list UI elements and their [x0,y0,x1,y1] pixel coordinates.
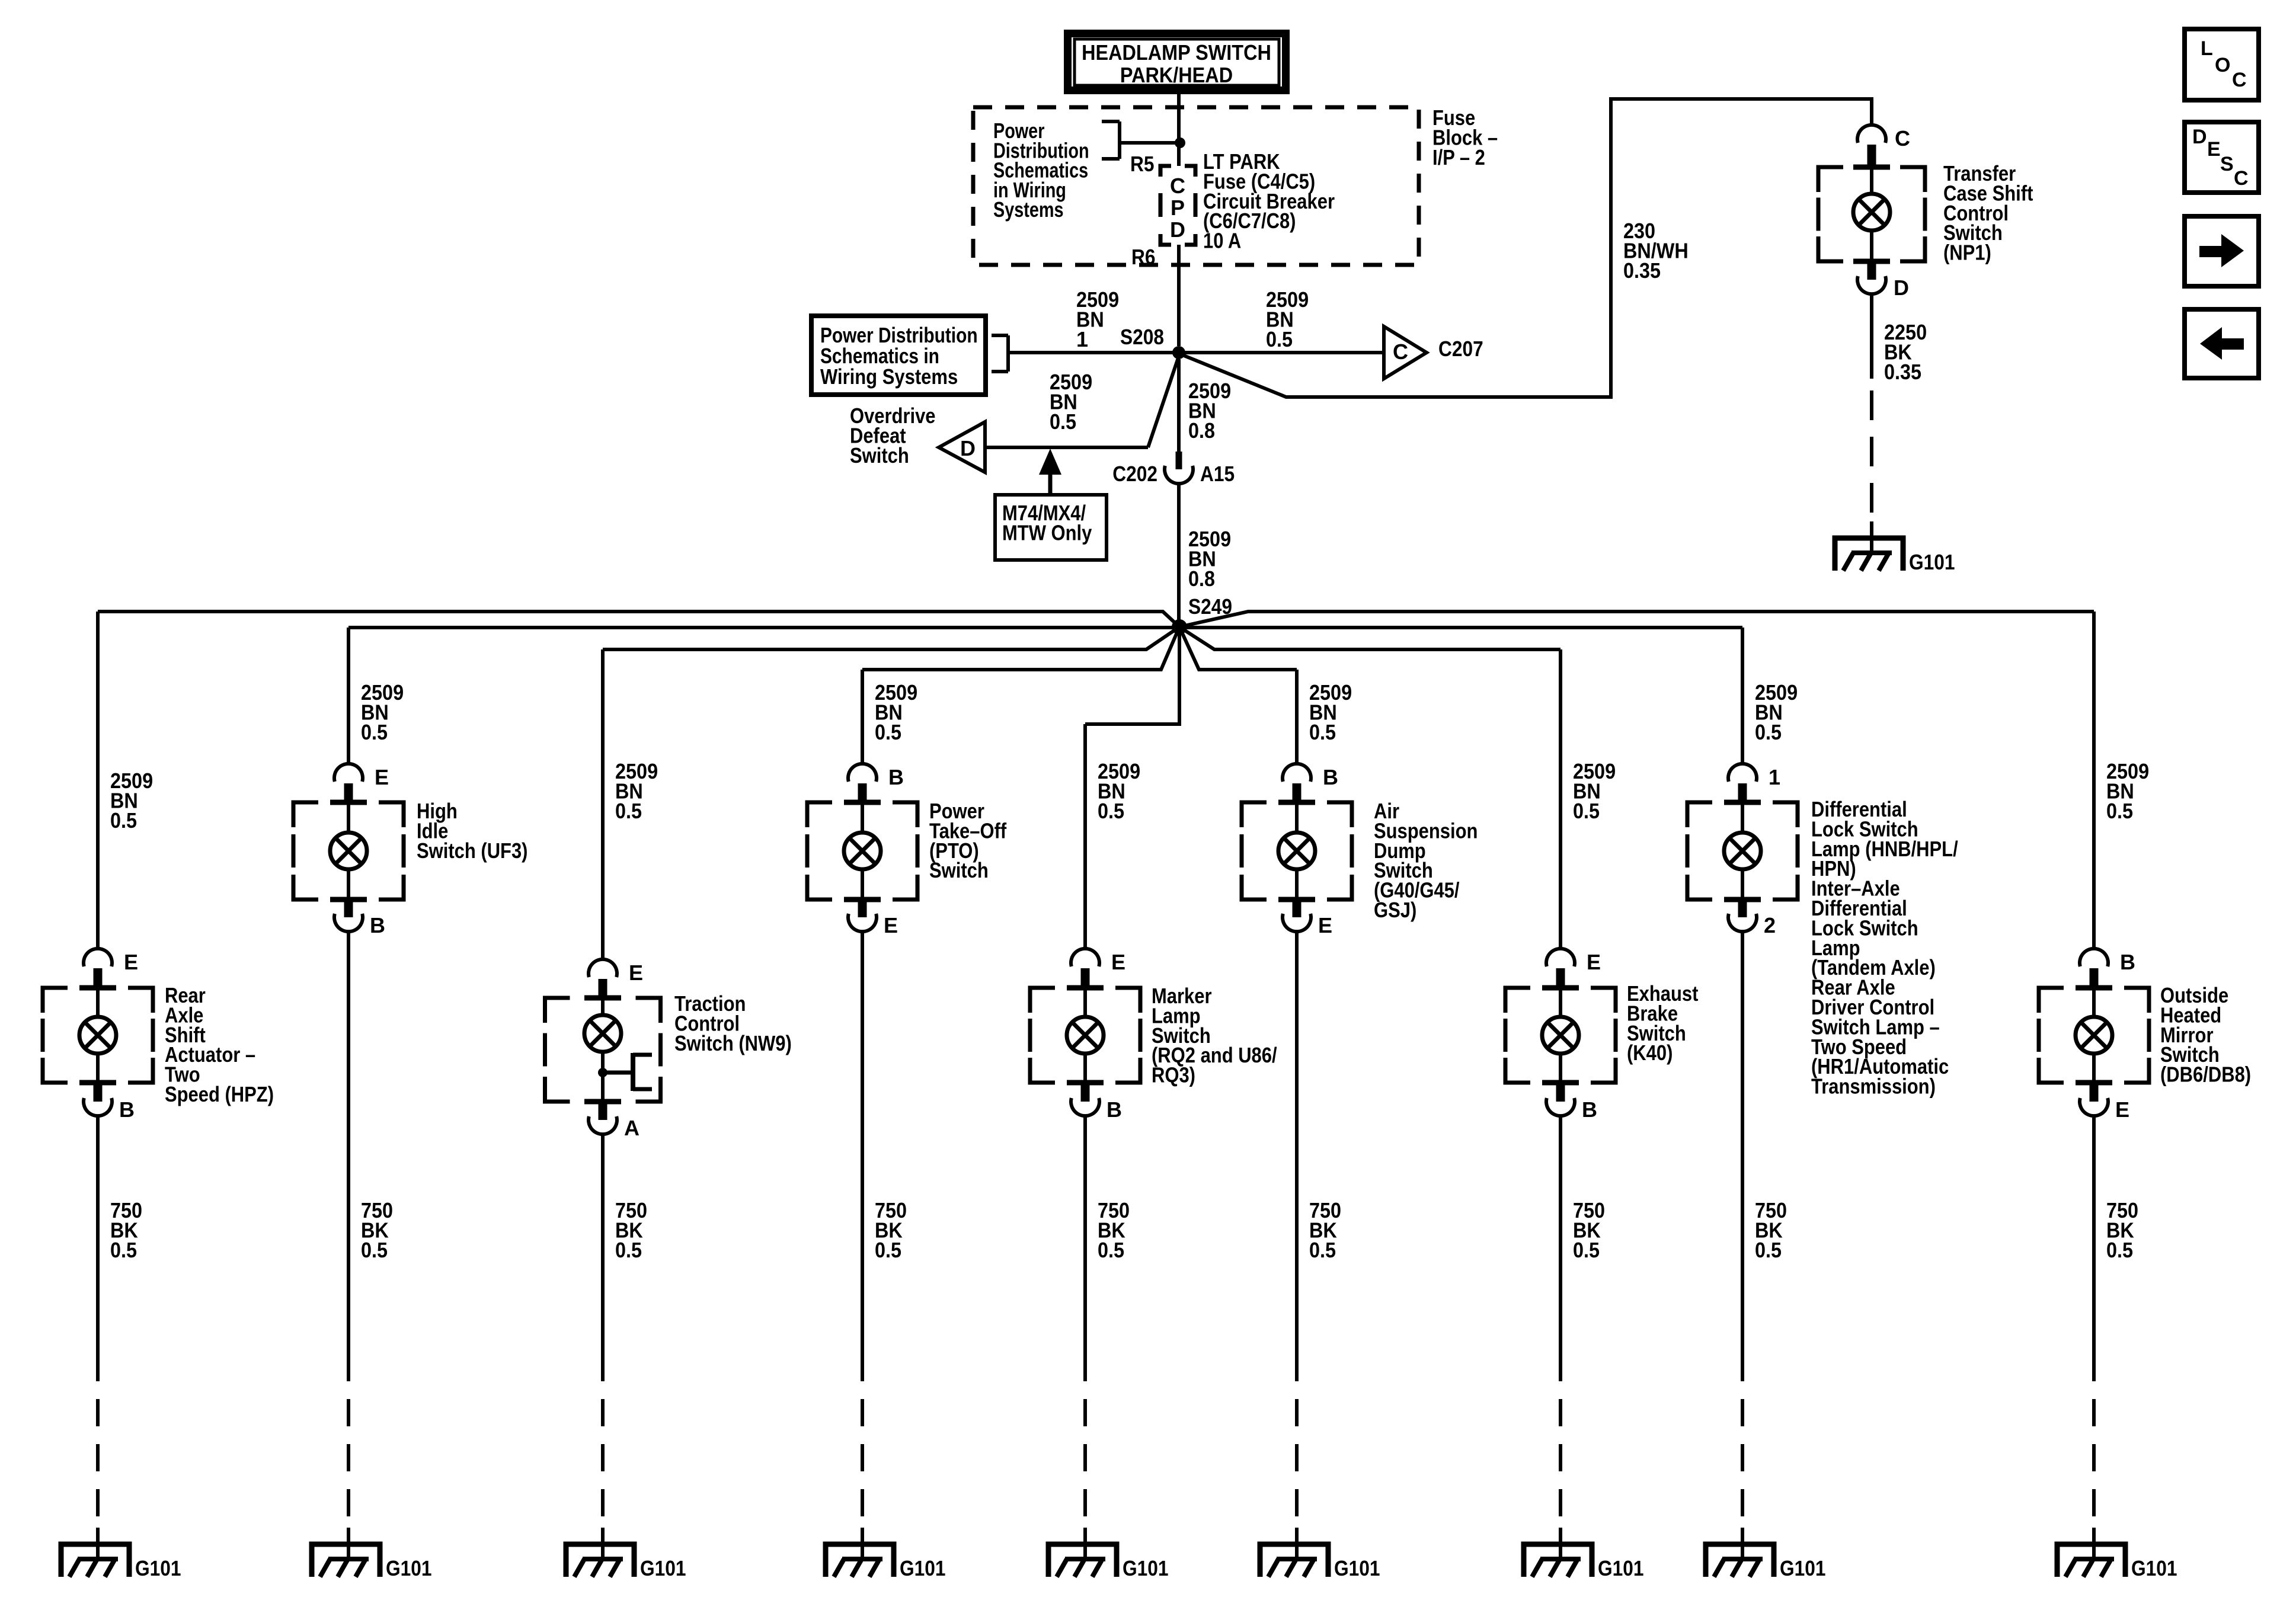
svg-text:0.5: 0.5 [615,1238,642,1262]
svg-text:D: D [1894,276,1909,300]
svg-text:E: E [2207,138,2221,161]
svg-text:G101: G101 [1123,1556,1169,1580]
svg-text:HEADLAMP SWITCH: HEADLAMP SWITCH [1082,40,1271,65]
svg-text:G101: G101 [386,1556,432,1580]
svg-text:D: D [2192,126,2207,148]
svg-text:Switch: Switch [850,443,909,468]
svg-text:B: B [888,765,904,789]
svg-text:GSJ): GSJ) [1374,898,1416,922]
svg-text:D: D [1170,217,1185,242]
svg-text:C207: C207 [1438,337,1483,361]
svg-text:E: E [124,950,138,974]
svg-text:R5: R5 [1130,152,1155,176]
svg-text:0.5: 0.5 [1755,720,1782,744]
svg-text:RQ3): RQ3) [1152,1063,1195,1087]
svg-text:MTW Only: MTW Only [1002,520,1092,545]
svg-text:Switch: Switch [929,858,989,882]
svg-text:Speed (HPZ): Speed (HPZ) [165,1082,274,1106]
svg-text:O: O [2215,54,2230,76]
svg-text:B: B [1582,1097,1597,1122]
svg-text:Switch (NW9): Switch (NW9) [674,1031,792,1055]
svg-text:0.5: 0.5 [1309,1238,1336,1262]
svg-text:S: S [2220,153,2234,175]
svg-text:D: D [960,436,976,460]
svg-text:Systems: Systems [993,197,1064,222]
svg-text:0.5: 0.5 [110,808,137,833]
svg-text:C202: C202 [1112,462,1157,486]
svg-text:0.5: 0.5 [615,799,642,823]
svg-text:E: E [1318,913,1332,937]
svg-text:0.5: 0.5 [361,1238,388,1262]
svg-text:C: C [1895,126,1910,151]
svg-text:L: L [2201,37,2213,60]
svg-text:G101: G101 [1909,550,1955,574]
svg-text:0.5: 0.5 [1755,1238,1782,1262]
svg-text:G101: G101 [1780,1556,1826,1580]
svg-text:0.5: 0.5 [1098,799,1124,823]
svg-text:P: P [1171,196,1185,220]
svg-text:0.5: 0.5 [875,720,901,744]
svg-text:C: C [2232,69,2247,91]
svg-text:R6: R6 [1131,245,1156,269]
svg-text:1: 1 [1076,327,1088,351]
svg-text:C: C [1393,340,1408,364]
svg-text:I/P – 2: I/P – 2 [1432,145,1485,169]
svg-text:0.5: 0.5 [110,1238,137,1262]
svg-text:E: E [629,961,643,985]
svg-text:(NP1): (NP1) [1943,241,1991,265]
svg-text:0.5: 0.5 [1098,1238,1124,1262]
svg-text:E: E [1111,950,1125,974]
svg-text:(DB6/DB8): (DB6/DB8) [2160,1062,2251,1087]
svg-text:0.5: 0.5 [2106,1238,2133,1262]
svg-text:Transmission): Transmission) [1811,1074,1936,1099]
svg-text:2: 2 [1764,913,1776,937]
svg-text:(K40): (K40) [1627,1041,1673,1065]
svg-text:0.5: 0.5 [875,1238,901,1262]
svg-text:E: E [2115,1097,2129,1122]
svg-text:C: C [1170,174,1185,198]
svg-text:B: B [370,913,385,937]
svg-text:E: E [375,765,389,789]
svg-text:G101: G101 [640,1556,686,1580]
svg-text:B: B [119,1097,135,1122]
svg-text:A: A [624,1116,639,1140]
svg-text:1: 1 [1769,765,1780,789]
svg-text:0.5: 0.5 [1309,720,1336,744]
svg-text:0.35: 0.35 [1623,258,1661,283]
svg-text:G101: G101 [1334,1556,1380,1580]
svg-text:E: E [1587,950,1601,974]
svg-text:0.5: 0.5 [1573,799,1600,823]
svg-text:B: B [2120,950,2135,974]
svg-text:0.8: 0.8 [1188,566,1215,591]
svg-text:0.5: 0.5 [2106,799,2133,823]
svg-text:PARK/HEAD: PARK/HEAD [1120,63,1233,87]
svg-text:Wiring Systems: Wiring Systems [820,364,958,389]
svg-text:E: E [884,913,898,937]
svg-text:10 A: 10 A [1203,229,1241,253]
svg-text:Switch (UF3): Switch (UF3) [417,838,528,863]
svg-text:G101: G101 [900,1556,946,1580]
svg-text:G101: G101 [2131,1556,2177,1580]
svg-text:0.5: 0.5 [1266,327,1293,351]
svg-text:B: B [1323,765,1338,789]
svg-text:0.5: 0.5 [1050,409,1076,434]
svg-text:A15: A15 [1200,462,1235,486]
svg-text:0.5: 0.5 [361,720,388,744]
svg-text:0.35: 0.35 [1884,360,1921,384]
svg-text:0.5: 0.5 [1573,1238,1600,1262]
svg-text:C: C [2234,167,2249,190]
svg-text:0.8: 0.8 [1188,418,1215,443]
svg-text:G101: G101 [1598,1556,1644,1580]
svg-text:B: B [1107,1097,1122,1122]
svg-text:G101: G101 [135,1556,181,1580]
svg-text:S208: S208 [1120,325,1164,349]
